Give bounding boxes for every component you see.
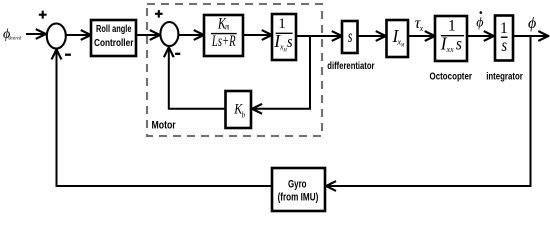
block: IxM gain — [387, 20, 409, 57]
svg-text:Gyro: Gyro — [288, 179, 307, 191]
svg-text:x: x — [419, 24, 424, 33]
block: integrator 1/s — [495, 16, 513, 61]
wire gyro to S1 negative input — [57, 50, 273, 186]
wire S2 to motor transfer block — [178, 34, 203, 36]
svg-text:M: M — [400, 43, 404, 49]
wire feedback tap down to Kb — [253, 35, 310, 109]
wire IxM to octocopter, node tau_x — [408, 35, 434, 37]
svg-text:Motor: Motor — [152, 120, 177, 132]
svg-text:m: m — [225, 22, 229, 32]
svg-text:1: 1 — [278, 16, 286, 32]
sign plus at S1 — [39, 11, 47, 19]
wire inertia block to differentiator with tap node — [296, 35, 341, 37]
svg-text:(from IMU): (from IMU) — [278, 192, 319, 204]
svg-text:s: s — [456, 34, 462, 54]
svg-text:Roll angle: Roll angle — [96, 24, 132, 35]
wire input to summing junction S1 — [26, 33, 45, 35]
block: octocopter 1/(Ixx s) — [435, 16, 467, 61]
svg-text:ϕ: ϕ — [528, 15, 536, 32]
svg-text:desired: desired — [8, 36, 21, 42]
svg-text:Controller: Controller — [94, 38, 133, 49]
block: Gyro (from IMU) — [272, 168, 325, 211]
svg-text:xx: xx — [446, 44, 454, 54]
block: motor winding Km/(Ls+R) — [204, 15, 243, 56]
wire controller to summing junction S2 — [136, 34, 159, 36]
svg-text:s: s — [287, 32, 293, 51]
svg-text:Octocopter: Octocopter — [430, 72, 473, 83]
wire Km block to inertia block — [243, 34, 271, 36]
wire differentiator to IxM gain — [358, 35, 386, 37]
block: differentiator s — [342, 21, 358, 53]
svg-text:integrator: integrator — [486, 71, 523, 82]
svg-text:Ls+R: Ls+R — [211, 33, 236, 50]
svg-text:s: s — [502, 35, 508, 55]
dashed enclosure: Motor subsystem — [147, 4, 322, 136]
svg-text:ϕ: ϕ — [476, 16, 483, 31]
svg-text:1: 1 — [448, 17, 456, 34]
wire output feedback tap down and left to gyro — [327, 36, 531, 186]
wire Kb to S2 negative input — [169, 48, 226, 109]
sign minus at S1 — [65, 54, 71, 56]
wire S1 to controller — [66, 34, 90, 36]
summing junction S1 — [47, 24, 66, 49]
svg-text:b: b — [242, 110, 246, 120]
dot of phi-dot — [480, 11, 483, 14]
sign minus at S2 — [175, 53, 180, 55]
block: Roll angle Controller — [91, 20, 136, 56]
wire octocopter to integrator, node phi-dot — [467, 35, 493, 37]
svg-text:s: s — [348, 26, 353, 46]
summing junction S2 — [160, 22, 178, 46]
svg-text:differentiator: differentiator — [327, 61, 374, 72]
sign plus at S2 — [155, 10, 163, 18]
block: 1/(IxM s) motor inertia — [272, 14, 296, 60]
block: Kb back-emf gain — [226, 91, 252, 128]
wire integrator to output, node phi — [513, 35, 548, 37]
